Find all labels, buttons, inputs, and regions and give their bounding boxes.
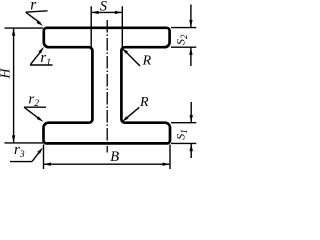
S extension line left <box>90 6 92 50</box>
s2 arrow bottom <box>189 47 192 55</box>
H dimension line <box>13 28 15 143</box>
leader r arrow <box>36 20 43 26</box>
leader r1 arrow <box>39 47 45 54</box>
S arrow right <box>115 11 123 14</box>
leader R top arrow <box>122 48 128 54</box>
leader r3 arrow <box>37 147 43 154</box>
s1 arrow bottom <box>190 144 193 152</box>
s2 arrow top <box>189 20 192 28</box>
svg-text:R: R <box>142 54 152 69</box>
leader r2 arrow <box>37 116 44 121</box>
leader R bottom line <box>126 107 139 118</box>
leader r2 line <box>24 107 39 118</box>
vertical dash-dot centerline <box>106 20 108 153</box>
B extension line right <box>169 145 171 170</box>
leader r3 line <box>32 152 40 162</box>
leader r1 shelf <box>30 64 53 66</box>
leader R bottom arrow <box>122 116 128 122</box>
B extension line left <box>43 145 45 170</box>
s1 extension line top <box>171 122 196 124</box>
S extension line right <box>121 6 123 50</box>
s1 arrow top <box>190 115 193 123</box>
svg-text:r: r <box>30 0 37 14</box>
s2 extension line top <box>171 27 196 29</box>
s1 extension line bottom <box>171 142 196 144</box>
H dimension extension line top <box>5 27 44 29</box>
H arrow top <box>12 28 15 35</box>
H dimension extension line bottom <box>5 142 44 144</box>
S arrow left <box>91 11 99 14</box>
svg-text:S: S <box>100 0 108 14</box>
s1 dimension line below <box>190 144 192 158</box>
leader r3 shelf <box>10 161 32 163</box>
leader r1 line <box>30 51 41 65</box>
I-beam cross-section outline <box>44 28 171 144</box>
B arrow right <box>163 163 171 166</box>
leader r shelf <box>26 11 48 12</box>
s1 dimension line above <box>190 102 192 123</box>
B arrow left <box>44 163 52 166</box>
svg-text:H: H <box>0 67 13 79</box>
leader R top line <box>126 52 141 67</box>
leader r line <box>26 12 41 23</box>
s2 extension line bottom <box>171 46 196 48</box>
S dimension line <box>91 11 122 13</box>
s2 dimension line above <box>190 5 192 28</box>
svg-text:R: R <box>139 95 149 110</box>
svg-text:B: B <box>110 149 119 165</box>
leader r2 shelf <box>24 106 46 108</box>
s2 dimension line below <box>190 47 192 66</box>
B dimension line <box>44 163 171 165</box>
H arrow bottom <box>12 135 15 143</box>
